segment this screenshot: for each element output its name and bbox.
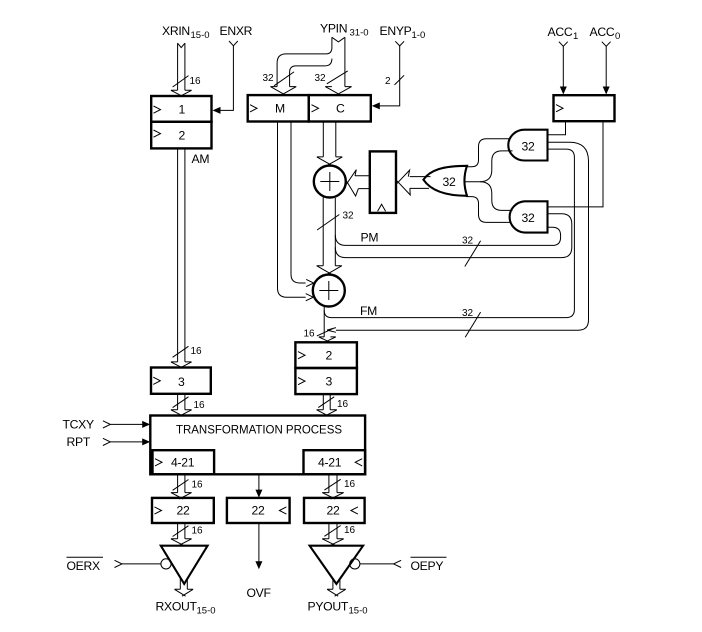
pin clock wedge register 3	[153, 377, 160, 384]
wire PM branch lower edge to AND gate 2	[335, 214, 572, 258]
node bus width 32 hatch (M branch)	[274, 72, 294, 86]
node bus width 32 hatch (C branch)	[327, 71, 348, 84]
pin clock wedge register 1	[154, 106, 161, 113]
wire ACC1 down to ACC register	[562, 46, 564, 87]
svg-text:32: 32	[443, 175, 456, 189]
node bus width 16 hatch	[173, 397, 189, 408]
svg-text:ENYP: ENYP	[380, 24, 412, 38]
svg-text:32: 32	[343, 211, 355, 222]
pin ENXR arrowhead into register 1	[213, 107, 221, 114]
svg-text:16: 16	[191, 346, 203, 357]
wire TCXY fork	[103, 421, 110, 428]
wire left 4-21 output bus to register 22	[178, 474, 185, 492]
wire ACC register Q1 to AND gate 1 control	[548, 121, 566, 135]
register 22 (left)	[152, 498, 214, 523]
wire right tristate output bus	[333, 579, 340, 590]
pin clock wedge ACC register	[556, 105, 563, 112]
pin clock wedge right 4-21	[355, 459, 362, 466]
register 1 (AM high)	[151, 96, 211, 122]
register 3 (left)	[151, 368, 211, 394]
wire register 3 output bus to transformation box	[323, 394, 330, 410]
register 4-21 (left)	[153, 450, 215, 474]
svg-text:M: M	[275, 101, 285, 115]
svg-text:22: 22	[327, 504, 340, 518]
svg-text:OEPY: OEPY	[411, 559, 444, 573]
register 2 (result high)	[295, 342, 357, 368]
wire bus arrowhead into adder 1 top	[317, 157, 343, 165]
or-gate U3 (accumulate select, 32)	[423, 166, 467, 196]
wire ACC1 fork	[559, 42, 568, 47]
wire YPIN bus right edge into register C	[344, 37, 346, 86]
wire bus arrowhead into register 2	[319, 337, 336, 342]
wire register M outputs down to adder 2	[278, 122, 306, 297]
svg-text:TRANSFORMATION PROCESS: TRANSFORMATION PROCESS	[176, 424, 342, 436]
wire bus arrowhead into transformation box	[171, 410, 192, 416]
svg-text:0: 0	[615, 31, 620, 42]
svg-text:16: 16	[337, 399, 349, 410]
svg-text:ACC: ACC	[548, 25, 573, 39]
pin open arrowhead upper into adder 2	[306, 279, 314, 286]
wire bus arrowhead into adder 2 top	[317, 266, 342, 274]
wire OEPY to bubble	[360, 563, 394, 565]
register 4-21 (right)	[304, 450, 366, 474]
svg-text:YPIN: YPIN	[320, 22, 347, 36]
wire right 22 output bus to tristate	[329, 523, 337, 539]
node bus width 32 hatch on FM return	[465, 312, 480, 337]
wire FM branch lower edge feedback	[336, 142, 589, 330]
wire OERX to bubble	[122, 563, 161, 565]
pin ACC0 arrowhead	[603, 87, 610, 95]
wire bus arrowhead into right register 22	[322, 493, 344, 499]
pin RPT arrowhead	[142, 438, 150, 445]
wire ENXR to register 1 enable	[220, 46, 234, 111]
svg-text:16: 16	[344, 525, 356, 536]
svg-text:1-0: 1-0	[412, 30, 426, 41]
wire ENXR fork	[229, 41, 238, 46]
wire AM output bus down to register 3	[178, 148, 185, 362]
svg-text:4-21: 4-21	[171, 456, 195, 470]
wire register C output bus to adder 1	[323, 122, 336, 157]
wire ACC0 down to ACC register	[605, 46, 607, 87]
svg-text:TCXY: TCXY	[63, 418, 94, 432]
node bus width 2 hatch	[395, 75, 405, 85]
svg-text:C: C	[336, 101, 345, 115]
adder U5 (second adder)	[313, 275, 345, 307]
svg-text:31-0: 31-0	[350, 28, 369, 39]
wire left 22 output bus to tristate	[178, 523, 185, 539]
and-gate U1 (FM enable, 32)	[508, 130, 547, 161]
wire adder 2 output down to register 2	[323, 306, 325, 337]
node bus width 16 hatch	[173, 526, 189, 537]
pin arrowhead into middle register 22	[255, 490, 262, 498]
svg-text:16: 16	[344, 479, 356, 490]
wire U1 output upper to OR gate	[466, 139, 510, 167]
wire bus arrowhead into pipeline register	[396, 170, 410, 195]
wire PM branch upper edge to AND gate 2	[335, 227, 560, 245]
svg-text:FM: FM	[360, 304, 377, 318]
wire bus arrowhead into right tristate	[322, 539, 344, 545]
node bus width 32 hatch	[317, 215, 339, 231]
svg-text:AM: AM	[192, 152, 210, 166]
pin clock wedge register M	[250, 105, 257, 112]
pin clock wedge register 2	[154, 130, 161, 137]
svg-text:PM: PM	[361, 231, 379, 245]
wire bus arrowhead PYOUT	[327, 589, 346, 596]
wire U2 output lower to OR gate	[466, 197, 510, 223]
wire bus arrowhead RXOUT	[175, 589, 194, 596]
svg-text:32: 32	[462, 236, 474, 247]
svg-text:15-0: 15-0	[349, 606, 368, 617]
wire TCXY to transformation box	[110, 423, 143, 425]
register pipeline (adder input)	[370, 151, 396, 213]
svg-text:OVF: OVF	[247, 586, 271, 600]
node bus width 16 hatch	[318, 397, 334, 408]
pin ENYP arrowhead into register C	[372, 102, 380, 109]
pin clock wedge left 4-21	[155, 459, 162, 466]
svg-text:22: 22	[177, 504, 190, 518]
wire bus arrowhead into register 1	[171, 90, 192, 96]
wire bus arrowhead into register C	[325, 87, 351, 95]
svg-text:1: 1	[573, 31, 578, 42]
svg-text:15-0: 15-0	[197, 606, 216, 617]
svg-text:XRIN: XRIN	[162, 24, 190, 38]
tristate buffer right (PYOUT driver)	[310, 546, 364, 584]
register 2 (AM low)	[151, 122, 211, 149]
register 22 (middle)	[227, 498, 290, 523]
svg-text:16: 16	[194, 400, 206, 411]
svg-text:2: 2	[326, 349, 333, 363]
svg-text:15-0: 15-0	[191, 30, 210, 41]
wire right 4-21 output bus to register 22	[329, 474, 337, 492]
wire ACC0 fork	[602, 42, 611, 47]
svg-text:16: 16	[304, 329, 316, 340]
svg-text:ENXR: ENXR	[220, 24, 253, 38]
wire OEPY fork	[394, 560, 402, 567]
pin clock wedge register C	[312, 105, 319, 112]
wire bus arrowhead into left register 22	[171, 493, 192, 499]
svg-text:16: 16	[190, 76, 202, 87]
tristate buffer left (RXOUT driver)	[161, 546, 208, 584]
wire register 3 output bus to transformation box	[178, 394, 185, 410]
wire bus arrowhead into left tristate	[171, 539, 192, 545]
adder U4 (first adder)	[314, 166, 346, 198]
svg-text:16: 16	[192, 526, 204, 537]
wire bus arrowhead into register M	[270, 87, 296, 95]
node bus width 16 hatch	[324, 479, 340, 490]
wire YPIN bus divider M/C branch	[290, 59, 332, 87]
node bus width 16 hatch	[173, 480, 189, 491]
wire ACC register Q0 to AND gate 2 control	[548, 121, 604, 207]
node bus width 32 hatch on PM return	[465, 241, 481, 267]
register ACC select	[554, 95, 615, 121]
node bus width 16 hatch	[173, 346, 189, 357]
svg-text:32: 32	[522, 140, 535, 154]
pin enable bubble left tristate	[161, 559, 171, 569]
svg-text:32: 32	[263, 73, 275, 84]
register C	[309, 95, 371, 121]
svg-text:32: 32	[522, 211, 535, 225]
wire YPIN bus left edge curving into register M	[277, 37, 332, 86]
pin open arrowhead lower into adder 2	[306, 294, 314, 301]
wire bus arrowhead into register 3	[171, 362, 192, 368]
node bus width 16 hatch	[173, 76, 189, 87]
pin clock wedge register 3	[298, 378, 305, 385]
pin clock wedge right 22	[351, 507, 358, 514]
pin OVF arrowhead	[255, 561, 262, 569]
svg-text:RPT: RPT	[67, 435, 91, 449]
pin clock wedge register 2	[298, 352, 305, 359]
wire adder 1 output bus to adder 2	[323, 197, 335, 266]
wire OR output bus to pipeline register	[410, 177, 431, 189]
wire pipeline register output bus to adder 1	[355, 176, 370, 189]
pin clock wedge middle 22	[279, 507, 286, 514]
register M	[248, 95, 309, 121]
svg-text:2: 2	[179, 128, 186, 142]
wire RPT fork	[103, 438, 110, 445]
and-gate U2 (PM enable, 32)	[510, 201, 548, 232]
svg-text:32: 32	[462, 308, 474, 319]
wire FM branch upper edge feedback	[324, 149, 574, 318]
svg-text:PYOUT: PYOUT	[308, 600, 349, 614]
svg-text:ACC: ACC	[590, 25, 615, 39]
svg-text:2: 2	[385, 76, 391, 87]
pin enable bubble right tristate	[350, 559, 360, 569]
wire ENYP to register C enable	[379, 46, 400, 106]
svg-text:32: 32	[315, 73, 327, 84]
wire U2 output upper to OR gate	[480, 182, 513, 211]
svg-text:OERX: OERX	[67, 559, 101, 573]
wire left tristate output bus	[180, 579, 187, 590]
wire RPT to transformation box	[110, 441, 143, 443]
wire ENYP fork	[395, 41, 404, 46]
svg-text:16: 16	[192, 480, 204, 491]
pin clock wedge left 22	[155, 507, 162, 514]
wire OERX fork	[115, 560, 123, 567]
wire bus arrowhead into adder 1	[346, 170, 358, 196]
wire YPIN bus fork	[332, 37, 345, 42]
pin clock wedge pipeline register	[378, 204, 386, 211]
register 3 (result low)	[295, 368, 357, 394]
wire U1 output lower to OR gate	[463, 151, 512, 182]
svg-text:1: 1	[179, 102, 186, 116]
wire XRIN bus to register 1	[178, 43, 185, 90]
svg-text:4-21: 4-21	[318, 456, 342, 470]
svg-text:3: 3	[178, 375, 185, 389]
pin ACC1 arrowhead	[560, 87, 567, 95]
svg-text:22: 22	[252, 504, 265, 518]
block TRANSFORMATION PROCESS	[150, 416, 365, 475]
pin TCXY arrowhead	[142, 421, 150, 428]
svg-text:RXOUT: RXOUT	[156, 600, 198, 614]
wire XRIN input bus fork	[178, 43, 185, 47]
pin open arrowhead FM merge at register 2 input	[327, 328, 336, 333]
node bus width 16 hatch	[324, 526, 340, 537]
wire middle 22 output down to OVF	[258, 523, 260, 562]
svg-text:3: 3	[326, 375, 333, 389]
wire OVF line from transformation box to middle register 22	[258, 474, 260, 491]
node bus width 16 hatch at register 2 input	[317, 328, 333, 336]
wire bus arrowhead into transformation box	[317, 410, 337, 416]
register 22 (right)	[304, 498, 365, 523]
